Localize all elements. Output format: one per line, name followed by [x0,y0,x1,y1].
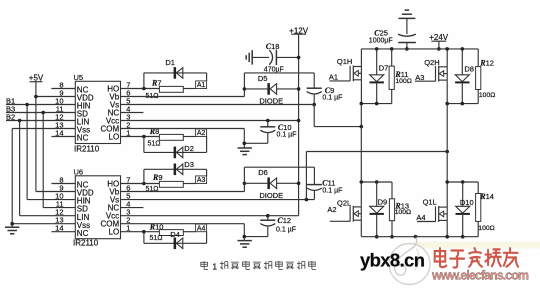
wire C18 left lead [252,56,269,58]
wire Vs jog to phase A [314,105,361,127]
svg-text:1000µF: 1000µF [369,37,393,44]
wire U6 LO to R10 [121,231,160,233]
resistor R11 100ohm [389,49,412,104]
svg-text:A1: A1 [329,72,338,81]
svg-text:D3: D3 [184,160,194,169]
transistor Q1L [423,198,448,222]
svg-text:D6: D6 [258,168,268,177]
node Q1H source junction [360,102,364,106]
node D9 bottom junction [375,235,379,239]
wire U5 HO to R7 [121,88,160,90]
diode D3 [174,160,194,175]
svg-text:0.1 µF: 0.1 µF [276,226,296,233]
svg-text:D8: D8 [464,64,474,73]
node B1 junction [25,103,29,107]
wire phase B vertical [446,104,448,182]
wire U5 pin14 NC stub [51,136,75,138]
transistor Q2L [337,199,361,222]
node Vss junction [10,222,14,226]
node LO junction [142,135,146,139]
svg-text:0.1 µF: 0.1 µF [277,131,297,138]
wire U6 Vs line [121,199,315,201]
svg-text:ybx8.cn: ybx8.cn [360,250,426,271]
svg-text:51Ω: 51Ω [146,186,159,193]
svg-text:A2: A2 [197,130,206,137]
diode D7 [370,49,389,104]
node A2 port flag [196,129,207,137]
wire A1 gate label [329,72,350,81]
svg-text:IR2110: IR2110 [74,144,100,153]
svg-text:51Ω: 51Ω [148,140,161,147]
node Vcc +12V junction [297,119,301,123]
node D9 top junction [375,180,379,184]
svg-text:www.elecfans.com: www.elecfans.com [431,269,529,283]
svg-text:D9: D9 [378,198,388,207]
node C10 top junction [266,119,270,123]
node A4 port flag [196,224,207,232]
wire A3 gate label [415,73,436,82]
node D6 +12V junction [297,182,301,186]
wire phase B rail [447,103,478,105]
node Q1L source junction [445,235,449,239]
capacitor C18 470uF [264,42,284,74]
node D8 bottom junction [461,102,465,106]
ground C18 side ground [246,50,252,64]
svg-text:A1: A1 [197,82,206,89]
diode D1 [165,58,182,79]
ground U6 COM [238,241,252,248]
node D7 bottom junction [375,102,379,106]
wire U6 Vb to D6 [121,183,245,191]
node R13 bottom junction [390,235,394,239]
svg-text:C12: C12 [277,216,291,225]
ground C25 top ground [398,10,415,34]
svg-text:D2: D2 [184,144,194,153]
wire bottom source rail [361,236,478,238]
svg-text:DIODE: DIODE [259,191,283,200]
svg-text:0.1 µF: 0.1 µF [322,187,342,194]
resistor R9 51ohm [146,173,184,193]
wire A2 gate label [327,205,350,221]
transistor Q2H [424,58,447,81]
resistor R8 51ohm [148,127,184,147]
svg-text:D10: D10 [460,198,474,207]
node B2 label [6,113,15,122]
power +5V label [29,74,44,83]
svg-text:D7: D7 [379,64,389,73]
diode D2 [174,144,194,158]
node COM ground junction [243,142,247,146]
node phase A jog junction [360,125,364,129]
wire U6 COM to ground [121,224,245,241]
svg-text:100Ω: 100Ω [478,225,494,232]
node D10 top junction [461,180,465,184]
wire Q1H drain [360,49,362,67]
wire Vs riser to phase B [306,152,447,200]
wire +24V rail [361,48,478,50]
U6 pin names and numbers [55,175,130,238]
svg-text:D1: D1 [165,58,175,67]
decor cream band [413,242,540,249]
wire D4 bypass loop [144,232,207,244]
diode D6 [244,168,298,200]
wire +12V vertical rail [298,34,300,216]
node B3 label [6,105,15,114]
capacitor C9 0.1uF [307,86,343,104]
wire U5 pin8 NC stub [51,88,75,90]
node A1 port flag [196,81,207,89]
wire U5 LO to R8 [121,136,160,138]
wire D3 bypass loop [144,169,207,183]
wire Vss bus [12,129,75,228]
node D5 +12V junction [297,87,301,91]
wire R9 to A3 flag [183,183,195,185]
svg-text:100Ω: 100Ω [479,92,495,99]
wire A4 gate label [416,213,435,222]
wire lower-left rail [361,181,392,183]
svg-text:A2: A2 [327,205,336,214]
node C9 Vs junction [312,103,316,107]
resistor R10 51ohm [149,222,183,242]
node U6 HO junction [142,182,146,186]
wire U6 pin14 NC stub [51,231,75,233]
wire U5 Vb to D5 [121,89,245,97]
svg-text:A4: A4 [416,213,425,222]
node R11 top junction [390,47,394,51]
svg-text:D4: D4 [170,230,180,239]
wire R7 to A1 flag [183,88,195,90]
transistor Q1H [337,57,362,81]
wire B2 to LIN pins [6,121,75,216]
wire phase A vertical [360,104,362,182]
svg-text:U6: U6 [74,168,84,177]
node U6 LO junction [142,230,146,234]
node C25 rail junction [405,47,409,51]
wire B1 to HIN pins [6,105,75,200]
node U6 Vs riser junction [305,198,309,202]
node C18 +12V junction [297,56,301,60]
wire Q2H source [446,80,448,104]
wire C18 right lead [276,56,298,58]
node B1 label [6,97,15,106]
capacitor C11 0.1uF [307,178,343,199]
svg-text:51Ω: 51Ω [150,235,163,242]
wire +5V to VDD pins [36,82,75,192]
node phase B riser junction [445,150,449,154]
svg-text:0.1 µF: 0.1 µF [322,95,342,102]
wire phase A rail [361,103,391,105]
wire Q2H drain [446,49,448,67]
node B3 junction [41,111,45,115]
wire D2 bypass loop [144,137,207,153]
wire B3 to SD pins [6,113,75,208]
svg-text:A3: A3 [197,177,206,184]
svg-text:NC: NC [77,229,89,238]
node D10 bottom junction [461,235,465,239]
node U6 COM ground junction [243,235,247,239]
wire Q1L drain [446,182,448,207]
node phase A lower junction [360,180,364,184]
node Vb D5 junction [243,87,247,91]
resistor R13 100ohm [389,182,411,237]
node D7 top junction [375,47,379,51]
node bottom mid junction [414,235,418,239]
svg-text:LO: LO [109,228,120,237]
wire Q2L source [360,220,362,237]
svg-text:Q1H: Q1H [337,57,352,66]
svg-text:Q1L: Q1L [423,198,437,207]
node HO junction [142,87,146,91]
svg-text:C11: C11 [322,178,335,187]
node C12 top junction [266,214,270,218]
svg-text:100Ω: 100Ω [395,209,411,216]
node B2 junction [18,119,22,123]
svg-text:R14: R14 [479,192,494,201]
power +12V label [289,26,309,35]
capacitor C12 0.1uF [244,216,296,237]
svg-text:IR2110: IR2110 [73,239,99,248]
wire lower-right rail [447,181,478,183]
ground Vss [5,227,19,234]
U5 pin names and numbers [55,80,130,142]
wire Q1H source [360,80,362,104]
wire U6 Vcc line [121,215,299,217]
decor elecfans circle logo [389,237,430,284]
resistor R12 100ohm [476,49,496,104]
svg-text:C18: C18 [266,42,280,51]
diode D9 [370,182,388,237]
svg-text:C25: C25 [374,29,388,38]
op-amp U6 IR2110 driver IC body [73,168,121,248]
svg-text:Q2H: Q2H [424,58,439,67]
wire U5 Vs line [121,104,315,106]
wire R8 to A2 flag [183,136,195,138]
node A3 port flag [196,176,207,184]
wire Q1L source [446,220,448,236]
node +24V junction [437,47,441,51]
svg-text:D5: D5 [258,74,268,83]
svg-text:R12: R12 [479,58,494,67]
diode D10 [456,182,474,237]
svg-text:LO: LO [109,133,120,142]
diode D5 [244,74,298,106]
wire D1 bypass loop [144,73,207,89]
text 电子发烧友 red watermark [435,248,518,267]
capacitor C10 0.1uF [244,121,296,144]
node D8 top junction [461,47,465,51]
diode D4 [170,230,183,249]
svg-text:R9: R9 [152,173,163,182]
ground U5 COM [238,148,252,155]
wire U6 HO to R9 [121,183,160,185]
svg-text:R7: R7 [151,78,162,87]
resistor R14 100ohm [476,182,495,237]
node U6 Vb D6 junction [243,182,247,186]
node VDD junction [34,95,38,99]
wire R10 to A4 flag [183,231,195,233]
svg-text:U5: U5 [74,73,84,82]
svg-text:100Ω: 100Ω [395,78,411,85]
wire U6 pin8 NC stub [51,183,75,185]
resistor R7 51ohm [146,78,184,100]
node Q2H source junction [445,102,449,106]
text www.elecfans.com watermark [431,269,529,283]
wire Q2L drain [360,182,362,207]
diode D8 [455,49,474,104]
wire U5 pin4 NC stub [121,112,144,114]
capacitor C25 1000uF [369,29,416,49]
node phase B lower junction [445,180,449,184]
wire bootstrap top U5 [244,73,314,89]
wire U5 COM to ground [121,129,245,149]
wire bootstrap top U6 [244,167,314,184]
node Q2H drain junction [445,47,449,51]
op-amp U5 IR2110 driver IC body [74,73,121,153]
svg-text:1: 1 [213,262,218,271]
text caption 图1 电机驱动电路原理图 [201,261,316,271]
text ybx8.cn watermark [360,250,426,271]
svg-text:NC: NC [77,134,89,143]
svg-text:A4: A4 [197,225,206,232]
wire U6 pin4 NC stub [121,207,144,209]
wire U5 Vcc line [121,120,299,122]
power +24V label [429,33,449,49]
svg-text:Q2L: Q2L [337,199,351,208]
